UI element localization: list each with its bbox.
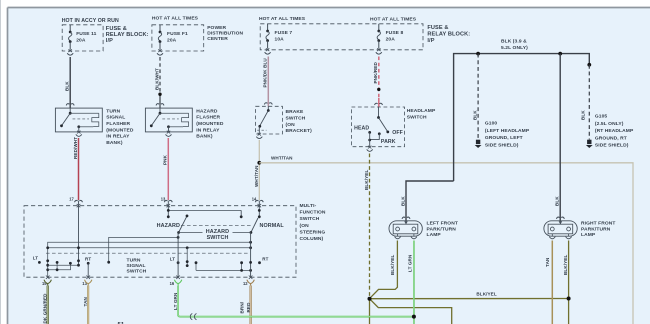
svg-text:BLK: BLK — [473, 110, 478, 120]
pin 16 connector — [174, 276, 181, 287]
svg-text:FUSE 7: FUSE 7 — [275, 30, 293, 36]
svg-text:BLK/YEL: BLK/YEL — [390, 255, 395, 275]
wire WHT/TAN brake switch down to node — [258, 140, 260, 200]
node cluster d — [195, 261, 198, 264]
wire DK GRN/RED pin 15 down — [47, 286, 49, 324]
label FUSE F1 / 20A — [167, 31, 188, 44]
svg-text:(LEFT HEADLAMP: (LEFT HEADLAMP — [485, 128, 530, 134]
svg-text:20A: 20A — [167, 38, 177, 44]
wire BLK/YEL junction down — [369, 299, 371, 324]
connector arc into left lamp — [402, 217, 410, 219]
node hazard contact left — [167, 215, 170, 218]
label HAZARD SWITCH (name, masks pole line) — [203, 228, 233, 241]
node on BLK/WHT wire — [158, 93, 161, 96]
node right arm pivot — [250, 231, 253, 234]
wire BLK elbow to left lamp — [406, 181, 454, 221]
label FUSE 8 / 20A — [386, 30, 404, 43]
label BRN/RED — [240, 301, 251, 313]
svg-text:BRN/: BRN/ — [240, 301, 245, 313]
svg-text:FLASHER: FLASHER — [196, 115, 220, 121]
svg-text:FUSE 11: FUSE 11 — [76, 31, 96, 37]
node 187 b — [186, 264, 189, 267]
fuse F1 20A — [157, 25, 163, 55]
wire BLK dashed to G100 — [477, 54, 479, 140]
svg-text:SWITCH: SWITCH — [127, 268, 147, 274]
nodes on pin17 column lower — [77, 259, 80, 262]
node on PNK/RED wire — [377, 88, 380, 91]
svg-text:PNK/DK BLU: PNK/DK BLU — [263, 58, 268, 88]
headlamp switch box — [352, 107, 405, 147]
svg-text:FUSE &: FUSE & — [427, 25, 448, 31]
svg-text:OFF: OFF — [392, 130, 403, 136]
svg-text:NORMAL: NORMAL — [260, 223, 285, 229]
left screen edge strip — [0, 0, 2, 324]
wire BLK/YEL right lamp down — [568, 241, 570, 324]
svg-text:POWER: POWER — [207, 25, 226, 31]
svg-text:TURN: TURN — [127, 258, 141, 264]
svg-text:RT: RT — [262, 257, 268, 262]
connector arc into hazard flasher — [156, 104, 164, 106]
svg-text:SWITCH: SWITCH — [207, 235, 229, 241]
frame border top — [8, 7, 650, 9]
pin 14 connector — [255, 200, 263, 202]
svg-text:DK GRN/RED: DK GRN/RED — [42, 293, 47, 324]
wire LT GRN pin16 elbow to lamp — [178, 286, 414, 317]
node hazard contact right — [240, 215, 243, 218]
fuse 8 20A — [376, 24, 382, 54]
node H_d right end — [249, 246, 252, 249]
wire BLK fuse11 to turn signal flasher — [69, 57, 71, 108]
hazard flasher box — [145, 108, 192, 132]
wire pin13 column — [87, 263, 89, 277]
svg-text:RED: RED — [246, 302, 251, 313]
svg-text:BLK: BLK — [581, 110, 586, 120]
wire pin16 column — [177, 233, 179, 278]
connector arc into brake switch — [264, 103, 272, 105]
pin 13 connector — [164, 200, 172, 202]
node H_d far left — [46, 246, 49, 249]
node 187 a — [186, 260, 189, 263]
svg-text:FUNCTION: FUNCTION — [300, 210, 326, 216]
node pin14 contact — [258, 215, 261, 218]
turn signal travel dashes — [46, 252, 249, 254]
svg-text:FLASHER: FLASHER — [106, 121, 130, 127]
svg-text:FUSE 8: FUSE 8 — [386, 30, 404, 36]
node BLK bus right tap — [558, 52, 562, 56]
brake switch box — [256, 106, 283, 134]
brake switch internals — [256, 106, 269, 138]
svg-text:RELAY BLOCK:: RELAY BLOCK: — [427, 32, 470, 38]
node pin12 mid — [249, 261, 252, 264]
node pin14 upper — [258, 209, 261, 212]
node BLK bus left tap — [476, 52, 480, 56]
label FUSE 11 / 20A — [76, 31, 96, 44]
hazard switch wiring from pin 13 — [168, 207, 241, 217]
label LEFT FRONT PARK/TURN LAMP — [427, 221, 458, 239]
connector arc into headlamp switch — [375, 103, 383, 105]
wire pin 17 into box — [78, 207, 80, 265]
node WHT/TAN junction — [257, 161, 261, 165]
svg-text:LT: LT — [170, 257, 176, 262]
svg-text:PNK/RED: PNK/RED — [373, 62, 378, 84]
wire LT GRN left lamp down — [413, 241, 415, 324]
svg-text:STEERING: STEERING — [300, 229, 326, 235]
svg-text:RED/WHT: RED/WHT — [73, 137, 78, 159]
svg-text:RT: RT — [85, 256, 91, 261]
svg-text:HAZARD: HAZARD — [157, 223, 180, 229]
left front park/turn lamp — [389, 221, 422, 239]
svg-text:IN RELAY: IN RELAY — [106, 134, 130, 140]
turn signal switch bus H_b — [109, 237, 178, 262]
label MULTI-FUNCTION SWITCH (ON STEERING COLUMN) — [300, 203, 326, 242]
wire BRN/RED pin 12 down — [250, 286, 252, 324]
svg-text:HOT AT ALL TIMES: HOT AT ALL TIMES — [259, 16, 306, 22]
svg-text:LEFT FRONT: LEFT FRONT — [427, 221, 458, 227]
hazard switch right arm — [251, 218, 258, 233]
svg-text:TAN: TAN — [545, 257, 550, 267]
node cluster f — [249, 269, 252, 272]
node RT contact head — [87, 262, 90, 265]
node LT GRN junction — [412, 315, 416, 319]
svg-text:G105: G105 — [595, 114, 608, 120]
svg-text:DISTRIBUTION: DISTRIBUTION — [207, 31, 243, 37]
svg-text:I/P: I/P — [427, 38, 434, 44]
svg-text:CENTER: CENTER — [207, 36, 228, 42]
svg-text:BANK): BANK) — [196, 134, 213, 140]
wire BLK top horizontal bus — [454, 54, 590, 181]
fuse & relay block I/P box (fuse 11) — [62, 25, 103, 51]
ground G105 — [586, 140, 593, 148]
node cluster a — [56, 261, 59, 264]
svg-text:PARK/TURN: PARK/TURN — [581, 226, 611, 232]
svg-text:(MOUNTED: (MOUNTED — [196, 121, 224, 127]
inline connector on LT GRN — [190, 314, 196, 320]
svg-text:BLK: BLK — [555, 196, 560, 206]
svg-text:20A: 20A — [76, 38, 86, 44]
svg-text:BLK: BLK — [400, 196, 405, 206]
svg-text:BLK/YEL: BLK/YEL — [364, 170, 369, 190]
label RIGHT FRONT PARK/TURN LAMP — [581, 221, 616, 239]
wire WHT/TAN horizontal to right edge and down — [259, 163, 633, 324]
svg-text:LT GRN: LT GRN — [407, 254, 412, 272]
svg-text:BLK/WHT: BLK/WHT — [155, 68, 160, 90]
node cluster e — [240, 261, 243, 264]
node H_d middle — [186, 246, 189, 249]
turn signal flasher box — [55, 108, 102, 132]
wire BLK/YEL branch to lower right — [370, 299, 452, 324]
wire PNK/DK BLU fuse 7 to brake switch — [267, 57, 269, 107]
label G105 (2.5L ONLY) (RT HEADLAMP GROUND, RT SIDE SHIELD) — [595, 114, 634, 149]
node H_b bottom — [107, 261, 110, 264]
svg-text:LAMP: LAMP — [427, 232, 442, 238]
wire BLK dashed to G105 — [588, 65, 590, 140]
svg-text:SIGNAL: SIGNAL — [127, 263, 146, 269]
hazard switch left arm — [179, 216, 187, 233]
connector arc into turn signal flasher — [66, 104, 74, 106]
svg-text:LT GRN: LT GRN — [173, 292, 178, 310]
node cluster c — [69, 262, 72, 265]
svg-text:HOT AT ALL TIMES: HOT AT ALL TIMES — [370, 16, 417, 22]
pin 12 connector — [247, 276, 254, 287]
svg-text:WHT/TAN: WHT/TAN — [271, 155, 293, 160]
ground G100 — [475, 140, 482, 148]
svg-text:BLK/YEL: BLK/YEL — [476, 291, 496, 296]
svg-text:TURN: TURN — [106, 108, 120, 114]
svg-text:LT: LT — [33, 256, 39, 261]
label G100 (LEFT HEADLAMP GROUND, LEFT SIDE SHIELD) — [485, 121, 530, 149]
svg-text:IN RELAY: IN RELAY — [196, 127, 220, 133]
connector arc into right lamp — [556, 217, 564, 219]
node BLK right corner — [587, 63, 591, 67]
svg-text:COLUMN): COLUMN) — [300, 236, 324, 242]
wire RED/WHT flasher to pin 17 — [78, 138, 80, 200]
hazard flasher internals — [150, 108, 189, 136]
svg-text:PNK: PNK — [163, 154, 168, 165]
label POWER DISTRIBUTION CENTER — [207, 25, 243, 42]
node H_c right end — [249, 241, 252, 244]
node H_d pin17 — [77, 246, 80, 249]
svg-text:PARK/TURN: PARK/TURN — [427, 226, 457, 232]
label HEADLAMP SWITCH — [407, 108, 436, 120]
wire PNK flasher to pin 13 — [167, 138, 169, 200]
label TURN SIGNAL FLASHER (MOUNTED IN RELAY BANK) — [106, 108, 134, 145]
svg-text:(2.5L ONLY): (2.5L ONLY) — [595, 121, 624, 127]
wire link 265 row — [48, 264, 79, 266]
pin 17 connector — [75, 200, 83, 202]
wire BLK to right lamp — [559, 54, 561, 221]
hazard travel dashes — [181, 224, 253, 226]
multi-function switch box — [24, 206, 296, 278]
svg-text:I/P: I/P — [106, 38, 113, 44]
headlamp switch internals — [367, 107, 389, 151]
wire BLK/YEL left lamp to junction — [370, 241, 398, 299]
svg-text:10A: 10A — [275, 37, 285, 43]
label BLK (3.9 & 5.2L ONLY) — [501, 39, 528, 51]
svg-text:SWITCH: SWITCH — [407, 115, 427, 121]
label TURN SIGNAL SWITCH — [127, 258, 147, 275]
turn signal switch bus H_c — [48, 242, 251, 277]
wiring from pin 14 — [258, 207, 260, 217]
svg-text:20A: 20A — [386, 37, 396, 43]
wire BLK/YEL headlamp switch down to junction — [369, 154, 371, 298]
svg-text:17: 17 — [69, 196, 74, 201]
svg-text:HOT AT ALL TIMES: HOT AT ALL TIMES — [152, 15, 199, 21]
pin 13 bottom connector — [85, 276, 92, 287]
label HAZARD FLASHER (MOUNTED IN RELAY BANK) — [196, 108, 224, 139]
wire pin12 column — [250, 233, 252, 278]
right contact cluster — [196, 263, 251, 271]
node left arm tip — [186, 215, 189, 218]
svg-text:G100: G100 — [485, 121, 498, 127]
wire TAN pin 13 down — [87, 286, 89, 324]
svg-text:(RT HEADLAMP: (RT HEADLAMP — [595, 128, 634, 134]
svg-text:5.2L ONLY): 5.2L ONLY) — [501, 45, 528, 51]
frame border left — [7, 8, 9, 324]
svg-text:RIGHT FRONT: RIGHT FRONT — [581, 221, 616, 227]
node LT contact — [38, 261, 41, 264]
svg-text:SIDE SHIELD): SIDE SHIELD) — [485, 143, 519, 149]
svg-text:16: 16 — [170, 281, 175, 286]
wire 187 stub — [186, 248, 188, 266]
svg-text:WHT/TAN: WHT/TAN — [254, 165, 259, 187]
nodes on pin15 column — [46, 259, 49, 262]
svg-text:LAMP: LAMP — [581, 232, 596, 238]
node cluster e2 — [240, 269, 243, 272]
svg-text:TAN: TAN — [83, 297, 88, 307]
svg-text:SWITCH: SWITCH — [300, 216, 320, 222]
node pin13 branch — [167, 209, 170, 212]
turn signal switch bus H_d — [48, 247, 251, 249]
svg-text:HEADLAMP: HEADLAMP — [407, 108, 436, 114]
svg-text:SIGNAL: SIGNAL — [106, 115, 125, 121]
node H_b right end — [177, 236, 180, 239]
svg-text:(MOUNTED: (MOUNTED — [106, 127, 134, 133]
node left arm pivot — [177, 231, 180, 234]
svg-text:HOT IN ACCY OR RUN: HOT IN ACCY OR RUN — [62, 18, 119, 24]
node BLK/YEL junction — [368, 297, 372, 301]
svg-text:(ON: (ON — [300, 223, 310, 229]
fuse 11 20A — [67, 25, 73, 55]
svg-text:BRAKE: BRAKE — [286, 109, 305, 115]
node RT2 contact — [258, 261, 261, 264]
fuse 7 10A — [265, 24, 271, 54]
node cluster b — [56, 268, 59, 271]
wire PNK/RED fuse 8 to headlamp switch — [378, 57, 380, 99]
svg-text:HEAD: HEAD — [354, 126, 369, 132]
svg-text:BLK (3.9 &: BLK (3.9 & — [501, 39, 527, 45]
svg-text:(ON: (ON — [286, 122, 296, 128]
svg-text:SIDE SHIELD): SIDE SHIELD) — [595, 143, 629, 149]
hazard pole line — [179, 232, 251, 234]
svg-text:BLK/YEL: BLK/YEL — [563, 255, 568, 275]
svg-text:SWITCH: SWITCH — [286, 116, 306, 122]
node BLK/YEL right junction — [567, 297, 571, 301]
turn signal flasher internals — [60, 108, 99, 136]
node LT2 contact — [177, 261, 180, 264]
power distribution center box (fuse F1) — [152, 25, 204, 51]
svg-text:BRACKET): BRACKET) — [286, 128, 313, 134]
pin 15 connector — [44, 276, 51, 287]
label FUSE 7 / 10A — [275, 30, 293, 43]
svg-text:GROUND, LEFT: GROUND, LEFT — [485, 135, 523, 141]
wire BLK/WHT fuse F1 to hazard flasher — [159, 57, 161, 94]
wire TAN right lamp down — [551, 241, 553, 324]
svg-text:BLK: BLK — [65, 81, 70, 91]
label FUSE & RELAY BLOCK: I/P — [106, 26, 149, 44]
fuse & relay block box (fuse 7 and fuse 8) — [260, 24, 423, 50]
label BRAKE SWITCH (ON BRACKET) — [286, 109, 313, 134]
svg-text:GROUND, RT: GROUND, RT — [595, 135, 627, 141]
svg-text:MULTI-: MULTI- — [300, 203, 317, 209]
right front park/turn lamp — [544, 221, 577, 239]
left contact cluster — [48, 262, 71, 269]
label FUSE & RELAY BLOCK: I/P (right) — [427, 25, 470, 44]
svg-text:PARK: PARK — [381, 139, 396, 145]
wire BLK/YEL horizontal bus — [370, 298, 569, 300]
svg-text:HAZARD: HAZARD — [196, 108, 218, 114]
svg-text:BANK): BANK) — [106, 140, 123, 146]
svg-text:FUSE F1: FUSE F1 — [167, 31, 188, 37]
